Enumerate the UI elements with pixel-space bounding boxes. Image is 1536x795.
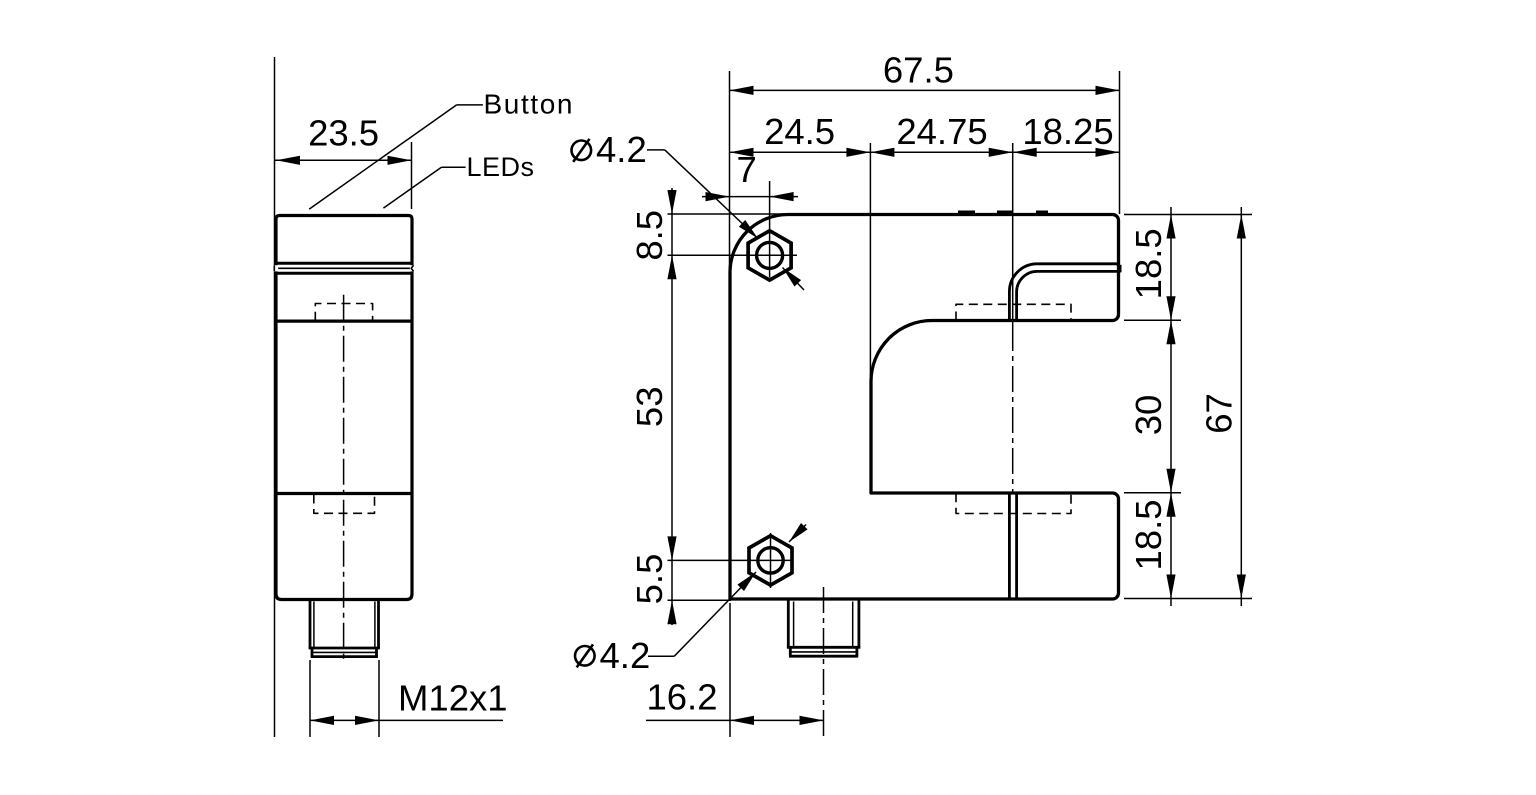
svg-text:16.2: 16.2 xyxy=(646,677,717,718)
svg-text:5.5: 5.5 xyxy=(629,554,670,605)
svg-text:53: 53 xyxy=(629,386,670,427)
svg-text:M12x1: M12x1 xyxy=(398,678,508,719)
svg-text:4.2: 4.2 xyxy=(600,635,651,676)
svg-text:18.5: 18.5 xyxy=(1128,499,1169,570)
svg-text:67: 67 xyxy=(1199,393,1240,434)
svg-text:4.2: 4.2 xyxy=(596,129,647,170)
svg-text:7: 7 xyxy=(736,149,756,190)
svg-text:LEDs: LEDs xyxy=(467,152,535,182)
svg-text:18.25: 18.25 xyxy=(1022,111,1113,152)
svg-text:67.5: 67.5 xyxy=(883,50,954,91)
svg-text:30: 30 xyxy=(1128,395,1169,436)
svg-text:8.5: 8.5 xyxy=(629,210,670,261)
svg-text:24.5: 24.5 xyxy=(764,111,835,152)
svg-text:23.5: 23.5 xyxy=(308,113,379,154)
svg-text:18.5: 18.5 xyxy=(1128,228,1169,299)
svg-text:Button: Button xyxy=(484,89,575,120)
svg-text:24.75: 24.75 xyxy=(896,111,987,152)
